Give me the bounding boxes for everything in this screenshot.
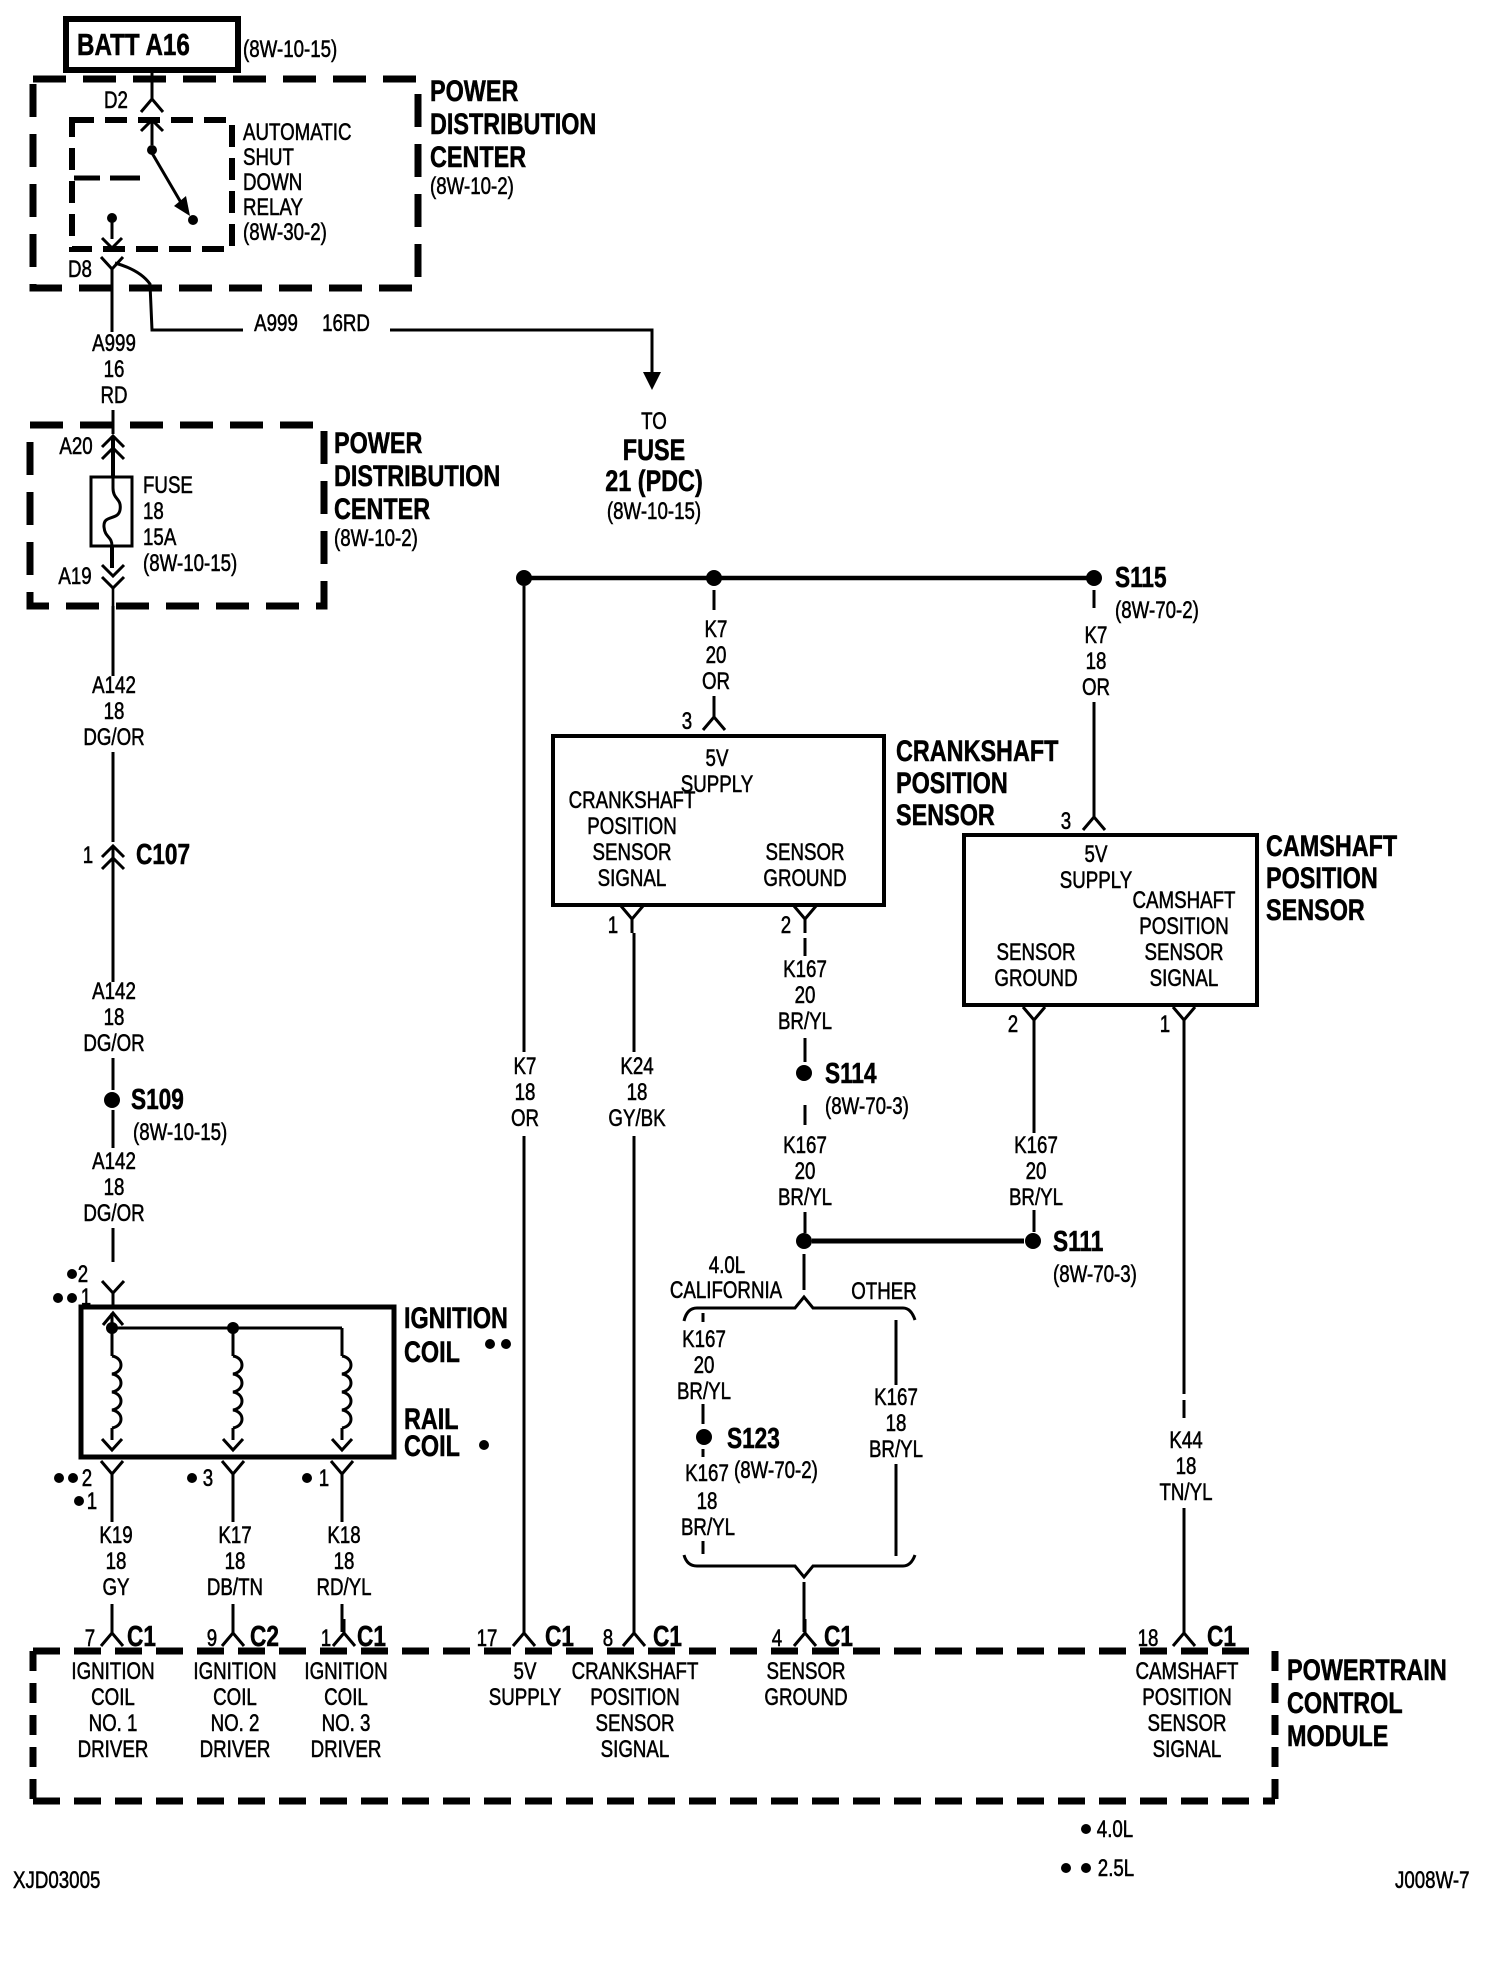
coil supply pin variant marks xyxy=(53,1261,91,1311)
svg-text:K16720BR/YL: K16720BR/YL xyxy=(1009,1132,1063,1211)
variant merge brace xyxy=(684,1555,915,1577)
camshaft sensor pin 1 connector xyxy=(1160,1007,1195,1038)
svg-text:POWERTRAINCONTROLMODULE: POWERTRAINCONTROLMODULE xyxy=(1287,1653,1447,1752)
svg-text:K16720BR/YL: K16720BR/YL xyxy=(778,1132,832,1211)
svg-text:S111: S111 xyxy=(1053,1224,1103,1257)
svg-text:CALIFORNIA: CALIFORNIA xyxy=(670,1277,783,1304)
PCM pin label ignition coil no 2 driver xyxy=(193,1658,276,1763)
wire K18 18 RD/YL xyxy=(316,1488,371,1632)
svg-text:4.0L: 4.0L xyxy=(1097,1816,1133,1843)
svg-text:(8W-10-2): (8W-10-2) xyxy=(334,525,418,552)
svg-text:K718OR: K718OR xyxy=(511,1053,539,1132)
svg-text:OTHER: OTHER xyxy=(851,1278,917,1305)
svg-text:4.0L: 4.0L xyxy=(709,1252,745,1279)
svg-text:1: 1 xyxy=(319,1465,329,1492)
powertrain control module dashed box xyxy=(33,1651,1275,1801)
camshaft position sensor box xyxy=(964,835,1257,1005)
svg-text:D2: D2 xyxy=(104,87,128,114)
wire branch from D8 to fuse 21 feed xyxy=(115,263,243,330)
wire from junction to variant split xyxy=(803,1254,806,1290)
svg-text:3: 3 xyxy=(203,1465,213,1492)
crankshaft position sensor box xyxy=(553,736,884,905)
wire K7 20 OR to crankshaft sensor xyxy=(702,590,730,704)
camshaft sensor internal labels xyxy=(994,841,1235,992)
label CRANKSHAFT POSITION SENSOR heading xyxy=(896,734,1059,831)
relay internal divider xyxy=(74,176,140,181)
relay coil input chevron on box edge xyxy=(141,120,163,145)
svg-text:CRANKSHAFTPOSITIONSENSOR: CRANKSHAFTPOSITIONSENSOR xyxy=(896,734,1059,831)
PCM connector pin 4 C1 xyxy=(772,1619,853,1653)
label TO FUSE 21 (PDC) (8W-10-15) xyxy=(605,408,702,525)
wire D8 down to PDC fuse xyxy=(111,269,114,332)
battery feed box BATT A16 xyxy=(66,19,238,70)
svg-text:(8W-10-2): (8W-10-2) xyxy=(430,173,514,200)
svg-text:A19: A19 xyxy=(58,563,91,590)
label POWER DISTRIBUTION CENTER (8W-10-2) upper xyxy=(430,74,596,199)
PCM pin label ignition coil no 1 driver xyxy=(71,1658,154,1763)
svg-text:3: 3 xyxy=(1061,808,1071,835)
svg-text:CAMSHAFTPOSITIONSENSORSIGNAL: CAMSHAFTPOSITIONSENSORSIGNAL xyxy=(1133,887,1236,992)
label RAIL COIL with dot xyxy=(404,1402,489,1462)
svg-text:1: 1 xyxy=(1160,1011,1170,1038)
svg-text:3: 3 xyxy=(682,708,692,735)
svg-text:(8W-70-3): (8W-70-3) xyxy=(1053,1261,1137,1288)
svg-text:SENSORGROUND: SENSORGROUND xyxy=(764,1658,847,1711)
svg-text:XJD03005: XJD03005 xyxy=(13,1867,100,1894)
svg-text:CRANKSHAFTPOSITIONSENSORSIGNAL: CRANKSHAFTPOSITIONSENSORSIGNAL xyxy=(569,787,696,892)
PCM connector pin 17 C1 xyxy=(477,1619,574,1653)
relay output contact node xyxy=(102,213,122,248)
wire K44 18 TN/YL xyxy=(1159,1034,1212,1632)
label POWER DISTRIBUTION CENTER (8W-10-2) lower xyxy=(334,426,500,551)
ignition coil primary winding 3 xyxy=(332,1328,352,1450)
svg-text:K1718DB/TN: K1718DB/TN xyxy=(207,1522,263,1601)
wire K167 20 BR/YL to camshaft sensor ground xyxy=(1009,1034,1063,1232)
wire K19 18 GY xyxy=(99,1488,132,1632)
svg-text:(8W-70-2): (8W-70-2) xyxy=(734,1457,818,1484)
wire K167 18 BR/YL california branch lower xyxy=(681,1460,735,1554)
automatic shut down relay dashed box xyxy=(72,120,232,249)
ignition coil primary winding 2 xyxy=(223,1328,243,1450)
wire branch continuing to arrow xyxy=(390,330,661,390)
relay common contact node xyxy=(147,145,157,155)
svg-text:(8W-70-2): (8W-70-2) xyxy=(1115,597,1199,624)
PCM connector pin 1 C1 xyxy=(321,1619,386,1653)
wire A142 segment 2 xyxy=(83,978,144,1090)
svg-text:K16720BR/YL: K16720BR/YL xyxy=(778,956,832,1035)
PCM pin label ignition coil no 3 driver xyxy=(304,1658,387,1763)
connector D2 xyxy=(104,85,163,114)
crankshaft sensor pin 1 connector xyxy=(608,906,643,939)
coil box input chevron and bus xyxy=(103,1313,342,1334)
wire K7 18 OR to camshaft sensor xyxy=(1082,590,1110,804)
svg-text:CRANKSHAFTPOSITIONSENSORSIGNAL: CRANKSHAFTPOSITIONSENSORSIGNAL xyxy=(572,1658,699,1763)
svg-text:K4418TN/YL: K4418TN/YL xyxy=(1159,1427,1212,1506)
label 4.0L CALIFORNIA xyxy=(670,1252,783,1304)
svg-text:BR/YL: BR/YL xyxy=(681,1514,735,1541)
wire K167 20 BR/YL upper segment xyxy=(778,938,832,1062)
svg-text:C107: C107 xyxy=(136,837,190,870)
legend 2.5L xyxy=(1061,1855,1134,1882)
wire A142 segment 3 xyxy=(83,1148,144,1262)
svg-text:BATT A16: BATT A16 xyxy=(77,27,190,62)
PCM connector pin 9 C2 xyxy=(207,1619,279,1653)
splice S114 xyxy=(796,1056,909,1119)
ignition coil rail box xyxy=(81,1307,394,1457)
bus splice node middle xyxy=(706,570,722,586)
PCM pin label sensor ground xyxy=(764,1658,847,1711)
svg-text:D8: D8 xyxy=(68,256,92,283)
coil output fork pin 1 xyxy=(302,1461,353,1492)
camshaft sensor pin 3 connector xyxy=(1061,803,1105,835)
svg-text:IGNITIONCOILNO. 3DRIVER: IGNITIONCOILNO. 3DRIVER xyxy=(304,1658,387,1763)
svg-text:A999: A999 xyxy=(254,310,298,337)
wire junction to splice S111 xyxy=(812,1239,1024,1244)
PCM pin label crankshaft position sensor signal xyxy=(572,1658,699,1763)
svg-text:FUSE1815A(8W-10-15): FUSE1815A(8W-10-15) xyxy=(143,472,237,577)
svg-text:K720OR: K720OR xyxy=(702,616,730,695)
svg-text:(8W-70-3): (8W-70-3) xyxy=(825,1093,909,1120)
wire segment to lower PDC box xyxy=(112,410,115,434)
svg-text:POWERDISTRIBUTIONCENTER: POWERDISTRIBUTIONCENTER xyxy=(430,74,596,173)
svg-text:A14218DG/OR: A14218DG/OR xyxy=(83,978,144,1057)
wire K167 20 BR/YL california branch xyxy=(677,1313,731,1424)
svg-text:S114: S114 xyxy=(825,1056,877,1089)
svg-text:S123: S123 xyxy=(727,1421,780,1454)
wire label A999 16 RD xyxy=(92,330,136,409)
coil output fork pin 3 xyxy=(187,1461,244,1492)
svg-text:IGNITIONCOILNO. 1DRIVER: IGNITIONCOILNO. 1DRIVER xyxy=(71,1658,154,1763)
splice S109 xyxy=(104,1082,227,1148)
wire K7 18 OR (left branch to PCM) xyxy=(511,586,539,1632)
svg-text:2: 2 xyxy=(781,912,791,939)
svg-text:TO: TO xyxy=(641,408,667,435)
wire A142 segment 1 xyxy=(83,606,144,842)
svg-text:16RD: 16RD xyxy=(322,310,370,337)
svg-text:(8W-10-15): (8W-10-15) xyxy=(133,1119,227,1146)
svg-text:IGNITIONCOIL: IGNITIONCOIL xyxy=(404,1301,508,1368)
crankshaft sensor pin 2 connector xyxy=(781,906,816,939)
wire BATT A16 to relay terminal D2 xyxy=(151,70,154,96)
wire K167 18 BR/YL other branch xyxy=(869,1320,923,1556)
label FUSE 18 15A (8W-10-15) xyxy=(143,472,237,577)
label OTHER xyxy=(851,1278,917,1305)
fuse 18 15A symbol xyxy=(91,477,132,546)
relay switch arm with arrow xyxy=(152,153,198,225)
svg-text:(8W-10-15): (8W-10-15) xyxy=(243,36,337,63)
label IGNITION COIL with dots xyxy=(404,1301,511,1368)
svg-text:FUSE21 (PDC): FUSE21 (PDC) xyxy=(605,433,702,497)
ignition coil primary winding 1 xyxy=(102,1328,122,1450)
svg-text:1: 1 xyxy=(87,1488,97,1515)
svg-text:K167: K167 xyxy=(685,1460,729,1487)
svg-text:5VSUPPLY: 5VSUPPLY xyxy=(489,1658,561,1711)
svg-text:SENSORGROUND: SENSORGROUND xyxy=(763,839,846,892)
svg-text:K1818RD/YL: K1818RD/YL xyxy=(316,1522,371,1601)
connector C107 xyxy=(83,837,190,982)
svg-text:1: 1 xyxy=(83,842,93,869)
svg-text:S109: S109 xyxy=(131,1082,184,1115)
footer code XJD03005 xyxy=(13,1867,100,1894)
power distribution center dashed box (upper) xyxy=(33,79,418,288)
label POWERTRAIN CONTROL MODULE xyxy=(1287,1653,1447,1752)
camshaft sensor pin 2 connector xyxy=(1008,1007,1045,1038)
svg-text:RAILCOIL: RAILCOIL xyxy=(404,1402,460,1462)
svg-text:AUTOMATICSHUTDOWNRELAY(8W-30-2: AUTOMATICSHUTDOWNRELAY(8W-30-2) xyxy=(243,119,351,246)
svg-text:IGNITIONCOILNO. 2DRIVER: IGNITIONCOILNO. 2DRIVER xyxy=(193,1658,276,1763)
label (8W-10-15) for BATT A16 xyxy=(243,36,337,63)
wire K167 20 BR/YL middle segment xyxy=(778,1105,832,1233)
svg-text:2: 2 xyxy=(1008,1011,1018,1038)
PCM connector pin 18 C1 xyxy=(1138,1619,1236,1653)
svg-text:K718OR: K718OR xyxy=(1082,622,1110,701)
splice S111 xyxy=(1025,1224,1137,1287)
wire merge to PCM sensor ground xyxy=(803,1582,806,1632)
bus splice node left xyxy=(516,570,532,586)
label CAMSHAFT POSITION SENSOR heading xyxy=(1266,829,1398,926)
label AUTOMATIC SHUT DOWN RELAY (8W-30-2) xyxy=(243,119,351,246)
PCM connector pin 7 C1 xyxy=(85,1619,156,1653)
ground junction node xyxy=(796,1233,812,1249)
connector A20 chevrons xyxy=(59,433,124,477)
crankshaft sensor internal labels xyxy=(569,745,847,892)
svg-text:A99916RD: A99916RD xyxy=(92,330,136,409)
PCM pin label camshaft position sensor signal xyxy=(1136,1658,1239,1763)
crankshaft sensor pin 3 connector xyxy=(682,703,725,735)
svg-text:1: 1 xyxy=(608,912,618,939)
svg-text:A20: A20 xyxy=(59,433,92,460)
PCM connector pin 8 C1 xyxy=(603,1619,682,1653)
connector A19 chevrons xyxy=(58,546,124,606)
svg-text:CAMSHAFTPOSITIONSENSORSIGNAL: CAMSHAFTPOSITIONSENSORSIGNAL xyxy=(1136,1658,1239,1763)
svg-text:K16718BR/YL: K16718BR/YL xyxy=(869,1384,923,1463)
svg-text:(8W-10-15): (8W-10-15) xyxy=(607,498,701,525)
splice S123 xyxy=(696,1421,818,1483)
wire K17 18 DB/TN xyxy=(207,1488,263,1632)
legend 4.0L xyxy=(1081,1816,1133,1843)
PCM pin label 5V supply xyxy=(489,1658,561,1711)
splice S115 xyxy=(1086,560,1199,623)
footer code J008W-7 xyxy=(1395,1867,1470,1894)
svg-text:18: 18 xyxy=(697,1488,718,1515)
svg-text:K2418GY/BK: K2418GY/BK xyxy=(608,1053,666,1132)
power distribution center dashed box (lower) xyxy=(30,425,324,606)
svg-text:J008W-7: J008W-7 xyxy=(1395,1867,1470,1894)
svg-text:K16720BR/YL: K16720BR/YL xyxy=(677,1326,731,1405)
svg-text:5VSUPPLY: 5VSUPPLY xyxy=(1060,841,1132,894)
svg-text:S115: S115 xyxy=(1115,560,1167,593)
variant split brace xyxy=(684,1297,915,1321)
wire K24 18 GY/BK xyxy=(608,933,666,1632)
5V supply bus wire xyxy=(524,576,1094,581)
svg-text:A14218DG/OR: A14218DG/OR xyxy=(83,672,144,751)
svg-text:SENSORGROUND: SENSORGROUND xyxy=(994,939,1077,992)
svg-text:A14218DG/OR: A14218DG/OR xyxy=(83,1148,144,1227)
svg-text:2.5L: 2.5L xyxy=(1098,1855,1134,1882)
svg-text:K1918GY: K1918GY xyxy=(99,1522,132,1601)
connector D8 xyxy=(68,256,123,283)
coil supply connector fork xyxy=(102,1281,124,1308)
wire label A999 16RD on branch xyxy=(254,310,370,337)
svg-text:POWERDISTRIBUTIONCENTER: POWERDISTRIBUTIONCENTER xyxy=(334,426,500,525)
coil output fork pin 2 xyxy=(54,1461,123,1515)
svg-text:CAMSHAFTPOSITIONSENSOR: CAMSHAFTPOSITIONSENSOR xyxy=(1266,829,1398,926)
